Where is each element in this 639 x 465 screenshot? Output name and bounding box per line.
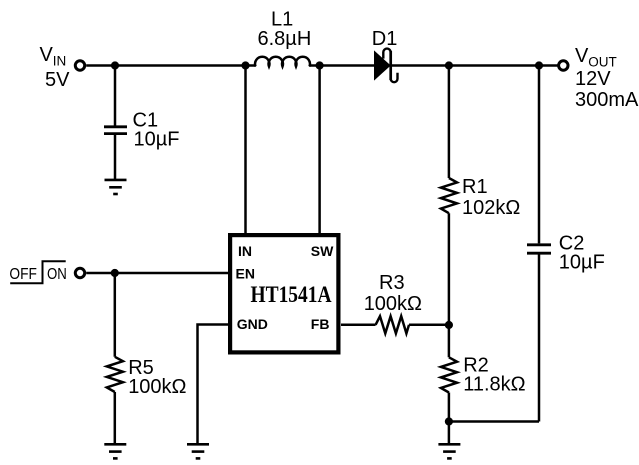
ground (R5)	[104, 444, 126, 458]
wire EN	[86, 272, 228, 275]
svg-text:FB: FB	[311, 316, 330, 332]
node L1 right junction	[316, 61, 324, 69]
wire R2 to ground	[448, 393, 451, 444]
wire R1 branch top	[448, 66, 451, 179]
node C2 top junction	[535, 61, 543, 69]
svg-text:EN: EN	[236, 266, 255, 282]
wire SW pin	[318, 66, 321, 235]
wire C2 branch top	[538, 66, 541, 244]
node L1 left junction	[241, 61, 249, 69]
wire R5 branch	[114, 273, 117, 357]
wire D1 to VOUT	[392, 64, 558, 67]
svg-text:D1: D1	[372, 28, 398, 50]
svg-text:5V: 5V	[45, 69, 70, 91]
svg-text:6.8µH: 6.8µH	[258, 28, 312, 50]
wire R3 to FB node	[409, 324, 449, 327]
svg-text:IN: IN	[53, 54, 67, 69]
node R2/C2 bottom junction	[445, 417, 453, 425]
svg-text:V: V	[40, 44, 54, 66]
switch symbol OFF/ON step line	[10, 261, 65, 283]
IC U1 HT1541A box	[230, 235, 338, 352]
node EN/R5 junction	[111, 269, 119, 277]
svg-text:OFF: OFF	[9, 266, 37, 283]
node R1 top junction	[445, 61, 453, 69]
resistor R2	[441, 357, 457, 392]
capacitor C1	[104, 127, 127, 134]
resistor R1	[441, 178, 457, 213]
svg-text:10µF: 10µF	[559, 251, 605, 273]
node VOUT terminal	[559, 61, 568, 70]
svg-text:100kΩ: 100kΩ	[128, 376, 186, 398]
ground (R2/C2)	[438, 444, 460, 458]
wire L1 to D1	[309, 64, 375, 67]
wire C2 bottom to R2 bottom	[449, 420, 539, 423]
inductor L1	[255, 57, 310, 67]
svg-text:IN: IN	[238, 243, 252, 259]
diode D1 (schottky)	[375, 49, 398, 83]
svg-text:GND: GND	[237, 316, 268, 332]
wire IN pin	[244, 66, 247, 235]
svg-text:SW: SW	[311, 243, 334, 259]
ground (IC GND)	[187, 444, 209, 458]
wire R5 to ground	[114, 392, 117, 444]
node FB junction	[445, 321, 453, 329]
svg-text:10µF: 10µF	[134, 129, 180, 151]
svg-text:11.8kΩ: 11.8kΩ	[463, 374, 525, 396]
resistor R5	[107, 357, 123, 392]
svg-text:300mA: 300mA	[575, 89, 639, 111]
svg-text:R1: R1	[462, 176, 488, 198]
svg-text:12V: 12V	[575, 68, 611, 90]
svg-text:ON: ON	[47, 266, 67, 283]
wire C1 branch	[114, 66, 117, 126]
wire FB to R3	[341, 324, 376, 327]
wire R1 to FB node to R2	[448, 213, 451, 357]
wire VIN rail top	[86, 64, 256, 67]
node EN terminal	[75, 268, 84, 277]
node VIN/C1 junction	[111, 61, 119, 69]
node VIN terminal	[75, 61, 84, 70]
capacitor C2	[527, 245, 551, 253]
svg-text:R3: R3	[379, 272, 405, 294]
resistor R3	[376, 316, 409, 333]
ground (C1)	[105, 180, 127, 194]
svg-text:V: V	[575, 45, 589, 67]
svg-text:HT1541A: HT1541A	[251, 282, 332, 307]
svg-text:102kΩ: 102kΩ	[462, 197, 520, 219]
svg-text:100kΩ: 100kΩ	[364, 293, 422, 315]
wire GND pin	[198, 325, 229, 444]
